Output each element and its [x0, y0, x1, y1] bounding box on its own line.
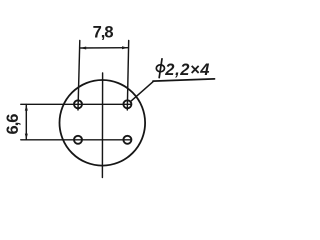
wire top pin-row line [21, 103, 131, 105]
arrowhead up of 6,6 dimension [25, 105, 28, 111]
wire bottom pin-row line [21, 139, 131, 141]
svg-text:2,2×4: 2,2×4 [164, 61, 210, 79]
svg-text:6,6: 6,6 [4, 114, 22, 135]
arrowhead right of 7,8 dimension [122, 46, 128, 49]
pin hole 3 (bottom-left) [74, 136, 82, 144]
dimension line 7,8 [81, 47, 128, 49]
pin hole 1 (top-left) [74, 100, 82, 108]
leader underline of label [153, 79, 215, 81]
leader line to hole label [130, 81, 153, 102]
extension line right (top dimension) [127, 41, 128, 111]
diameter symbol of label [156, 65, 164, 72]
arrowhead left of 7,8 dimension [80, 47, 86, 50]
arrowhead down of 6,6 dimension [25, 134, 28, 140]
dimension line 6,6 [25, 105, 27, 140]
vertical center line [101, 73, 103, 178]
extension line left (top dimension) [78, 41, 80, 111]
pin hole 4 (bottom-right) [123, 136, 131, 144]
connector body circle [60, 80, 146, 166]
pin hole 2 (top-right) [123, 100, 131, 108]
svg-text:7,8: 7,8 [93, 24, 114, 42]
